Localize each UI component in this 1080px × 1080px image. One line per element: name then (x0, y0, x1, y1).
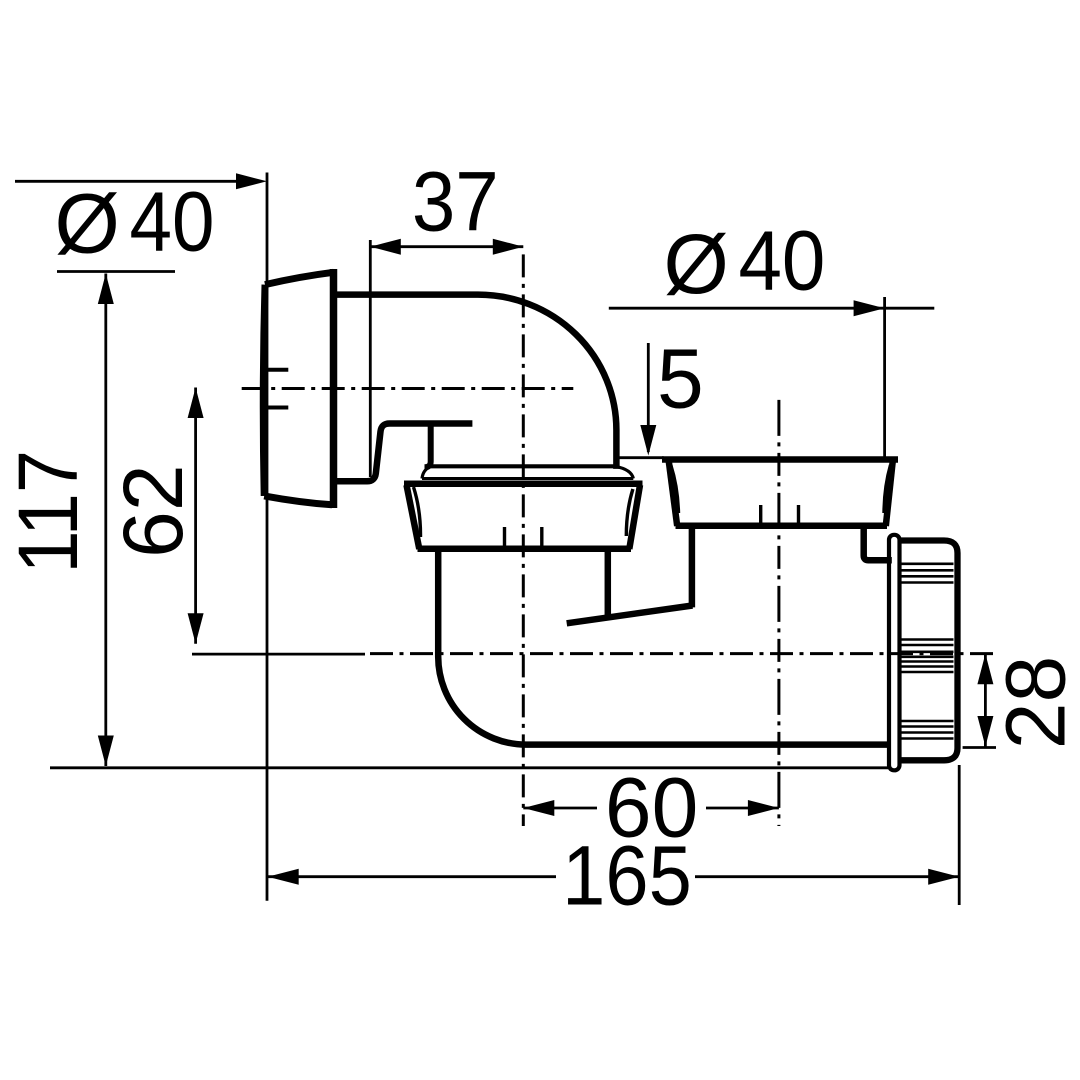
wall flange tick 2 (268, 406, 289, 410)
lower pipe slanted top edge (567, 606, 693, 624)
nut U2 left edge (669, 462, 677, 527)
outlet thread line 2 (902, 569, 954, 572)
outlet thread line 8 (902, 665, 954, 668)
washer bottom line (422, 477, 633, 480)
nut U2 bottom edge (676, 522, 888, 529)
wall flange top edge (265, 272, 334, 284)
outlet thread line 4 (902, 581, 954, 584)
wall flange right edge (330, 269, 338, 508)
wire: leader line top-left O40 (15, 180, 240, 183)
nut U2 top edge (662, 456, 898, 463)
outlet thread line 6b (902, 650, 954, 653)
outlet thread line 5 (902, 638, 954, 641)
wire: left extension line x=267 (266, 173, 269, 901)
outlet thread line 6 (902, 644, 954, 647)
svg-text:117: 117 (2, 450, 96, 574)
svg-text:Ø: Ø (664, 217, 729, 311)
nut U2 left chamfer arc (671, 465, 679, 513)
nut U1 left edge (407, 485, 420, 549)
node: arrowhead 62 bottom (188, 613, 204, 644)
down pipe left edge and lower elbow and pipe bottom edge (438, 550, 888, 745)
nut U2 tick right (797, 505, 800, 525)
wire: 117 dimension line (104, 274, 107, 767)
node: arrowhead 37 left (370, 239, 401, 255)
svg-text:28: 28 (989, 656, 1080, 749)
wire: right O40 extension line x=884.6 (883, 297, 886, 457)
svg-text:5: 5 (657, 332, 704, 426)
wire: 60 dimension line right part (706, 807, 779, 810)
pipe top edge and elbow outer curve (337, 295, 616, 469)
pipe bottom edge with tailpiece step (337, 424, 472, 482)
wire: lower horizontal centerline (370, 652, 996, 655)
node: arrowhead 117 top (98, 274, 114, 305)
wire: upper horizontal centerline (242, 387, 574, 390)
outlet thread line 9 (902, 671, 954, 674)
node: arrowhead 117 bottom (98, 736, 114, 767)
nut U2 right edge (886, 462, 893, 527)
svg-text:40: 40 (129, 175, 214, 269)
nut U1 right edge (629, 485, 640, 549)
washer top line (431, 464, 615, 468)
outlet thread line 11 (902, 725, 954, 728)
wire: 62 bottom reference line (192, 653, 365, 656)
wire: 37 left extension line (369, 240, 372, 477)
tailpiece stub vertical (425, 425, 431, 467)
node: arrowhead 28 top (977, 654, 993, 685)
wire: 165 dimension line left part (268, 875, 556, 878)
outlet thread line 13 (902, 737, 954, 740)
svg-text:165: 165 (562, 830, 692, 923)
svg-text:62: 62 (106, 464, 200, 557)
wire: vertical centerline 1 (x=523) (522, 254, 525, 826)
outlet thread line 12 (902, 731, 954, 734)
nut U1 tick right (540, 527, 543, 548)
wall flange tick 1 (268, 368, 289, 372)
node: arrowhead O40 right (854, 300, 885, 316)
wire: 60 dimension line left part (523, 807, 597, 810)
nut U1 right chamfer arc (626, 489, 633, 536)
outlet thread line 7 (902, 660, 954, 663)
wire: 165 dimension line right part (695, 875, 959, 878)
wire: 37 dimension line (370, 245, 523, 248)
svg-text:Ø: Ø (55, 177, 120, 271)
node: arrowhead 37 right (493, 239, 524, 255)
node: arrowhead O40 left (236, 173, 267, 189)
neck left line below nut U2 (689, 528, 696, 607)
outlet body outline (900, 541, 958, 761)
wire: bottom extension line y=767.8 (50, 766, 888, 769)
wire: right O40 leader line (609, 307, 935, 310)
outlet thread line 10 (902, 720, 954, 723)
nut U1 left chamfer arc (414, 487, 421, 537)
svg-text:40: 40 (738, 215, 825, 308)
outlet thread line 6c (902, 655, 954, 658)
node: arrowhead 165 left (268, 869, 299, 885)
wire: 165 right extension line (958, 765, 961, 905)
wire: underline under O40 left / 117 top reference (57, 270, 175, 273)
node: arrowhead 62 top (188, 388, 204, 419)
outlet flange plate (889, 535, 900, 771)
nut U2 tick left (759, 505, 762, 525)
node: arrowhead 5 down (640, 425, 656, 456)
svg-text:37: 37 (412, 156, 499, 249)
wire: 62 dimension line (194, 388, 197, 644)
nut U2 right chamfer arc (884, 465, 891, 513)
wire: 5 leader line (647, 343, 650, 452)
node: arrowhead 28 bottom (977, 716, 993, 747)
outlet thread line 3 (902, 575, 954, 578)
washer right cap (615, 466, 633, 478)
nut U1 bottom edge (418, 545, 632, 552)
neck right line below nut U2 (864, 528, 892, 560)
outlet thread line 1 (902, 562, 954, 565)
nut U1 top edge (404, 481, 643, 488)
wire: 28 bottom extension line (963, 746, 996, 749)
wire: 28 dimension line (984, 654, 987, 747)
node: arrowhead 60 left (523, 800, 554, 816)
wall flange left edge (263, 285, 265, 496)
down pipe right edge (605, 550, 612, 619)
wire: 5 reference bridge line (619, 456, 664, 459)
node: arrowhead 60 right (748, 800, 779, 816)
wall flange bottom edge (264, 496, 332, 505)
wire: vertical centerline 2 (x=779) (777, 400, 780, 826)
washer left cap (422, 466, 431, 478)
node: arrowhead 165 right (928, 869, 959, 885)
nut U1 tick left (503, 527, 506, 548)
